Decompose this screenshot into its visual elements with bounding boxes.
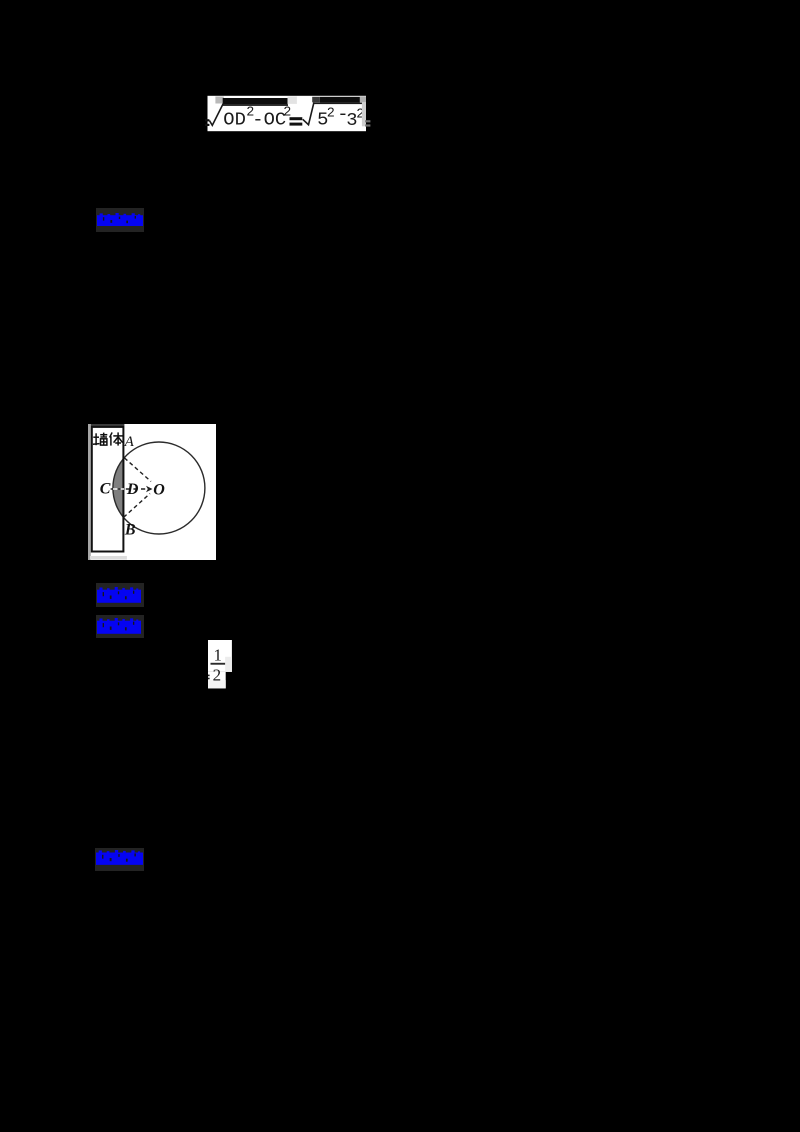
- svg-text:O: O: [153, 481, 165, 498]
- equation image 1: =sqrt(OD^2-OC^2)=sqrt(5^2-3^2)=: [205, 95, 371, 137]
- gray artifact before bar2: [288, 97, 297, 104]
- gray lens (circle part inside wall): [113, 457, 124, 518]
- ti: [109, 432, 112, 437]
- svg-text:D: D: [125, 481, 138, 498]
- svg-text:2: 2: [327, 107, 335, 122]
- radical tick 2: [303, 103, 314, 125]
- dark strip above wall: [90, 424, 124, 426]
- OD^2-OC^2: [223, 106, 291, 131]
- white dashes over lens: [113, 488, 124, 490]
- label qiangti (CJK strokes): [92, 432, 122, 445]
- svg-text:1: 1: [213, 645, 222, 664]
- svg-text:2: 2: [212, 665, 221, 684]
- svg-text:OD: OD: [223, 109, 246, 131]
- thick black selection bar 1: [223, 98, 288, 104]
- middle bold =: [290, 117, 303, 120]
- blue label 1: [96, 208, 144, 232]
- blue label 4: [95, 848, 144, 872]
- gray strip below wall: [89, 556, 126, 560]
- gray artifact left of bar1: [215, 97, 223, 104]
- thin vinculum 2: [314, 103, 363, 105]
- geometry figure: [88, 424, 216, 565]
- dashed B'-O: [123, 493, 149, 517]
- thick black selection bar 2: [320, 97, 360, 103]
- 5^2-3^2: [317, 103, 364, 131]
- svg-text:B: B: [123, 521, 135, 538]
- qiang: [95, 433, 97, 445]
- thin vinculum 1: [223, 104, 288, 106]
- svg-text:C: C: [99, 480, 110, 497]
- dashed A'-O: [124, 457, 151, 481]
- circle O: [112, 442, 204, 534]
- radical tick 1: [209, 104, 223, 126]
- fraction 1/2 image: [208, 640, 232, 694]
- labels A C D O B: [99, 433, 165, 538]
- dashed C-D-O with arrow: [110, 488, 146, 490]
- right clipped = on black: [365, 120, 370, 122]
- blue label 2: [96, 583, 144, 607]
- wall rectangle: [91, 426, 123, 551]
- gray left sliver: [88, 424, 91, 560]
- svg-text:-OC: -OC: [252, 109, 286, 131]
- clipped '=' at left: [205, 119, 209, 121]
- blue label 3: [96, 615, 144, 638]
- svg-text:A: A: [123, 433, 134, 449]
- gray strip right: [360, 96, 366, 102]
